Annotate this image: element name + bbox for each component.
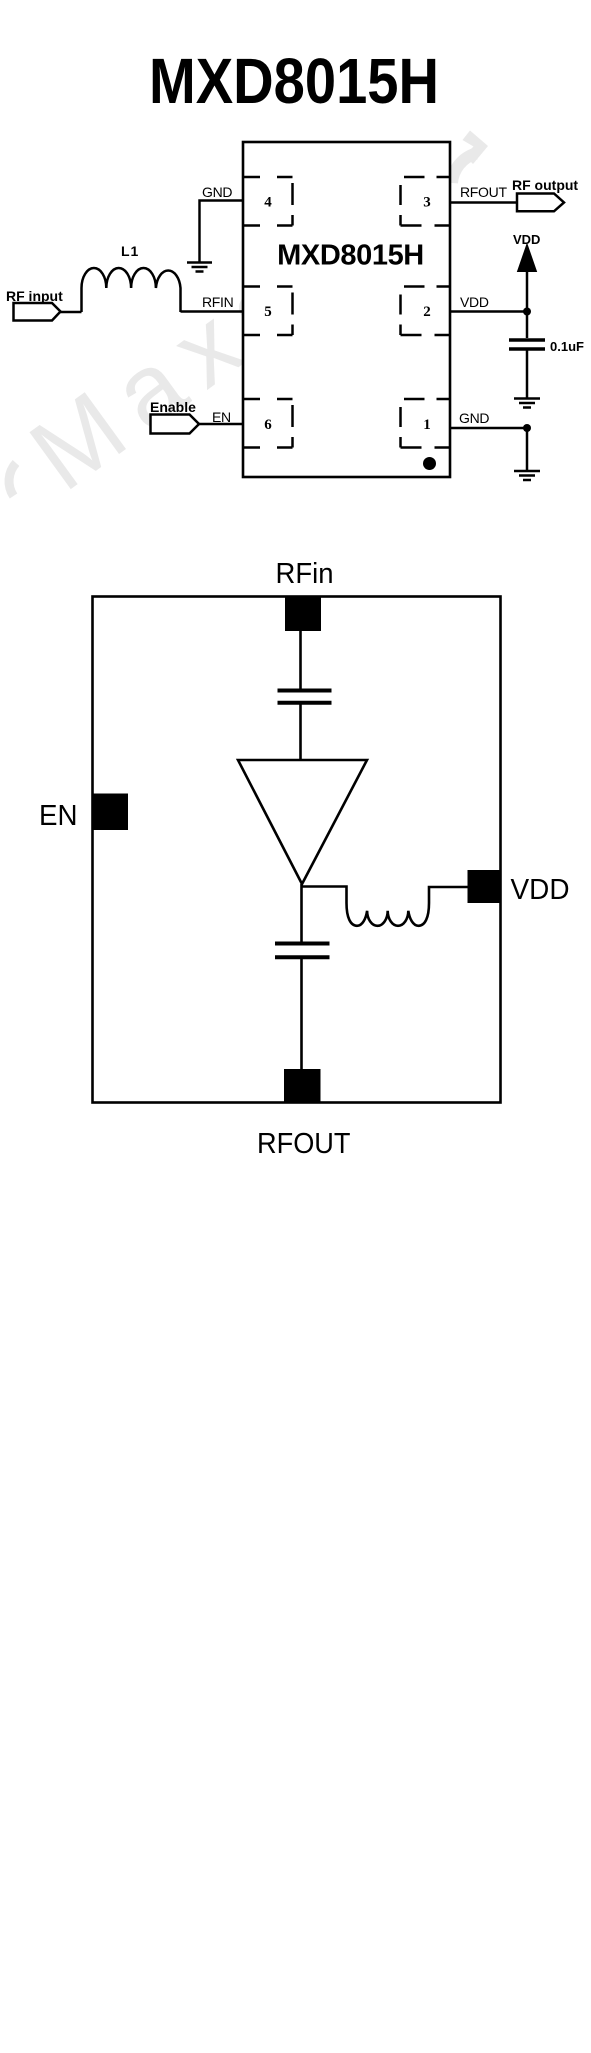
wire pin1 GND bbox=[450, 427, 527, 429]
svg-text:EN: EN bbox=[39, 800, 78, 832]
block diagram outer border bbox=[93, 597, 501, 1103]
svg-text:RFOUT: RFOUT bbox=[257, 1128, 351, 1160]
pin 4 box bbox=[244, 177, 293, 226]
wire Enable to pin6 bbox=[199, 423, 243, 425]
svg-text:VDD: VDD bbox=[511, 874, 570, 906]
wire C1 to ground B bbox=[526, 350, 529, 398]
wire GND to ground C bbox=[526, 428, 529, 471]
svg-text:1: 1 bbox=[423, 417, 431, 433]
ground C bbox=[514, 471, 540, 480]
amplifier triangle bbox=[238, 760, 367, 884]
IC U1 body bbox=[243, 142, 450, 477]
wire VDD to C1 bbox=[526, 312, 529, 339]
wire RFin pad to C2 bbox=[299, 631, 302, 689]
port flag RF input bbox=[14, 303, 61, 321]
svg-text:RFin: RFin bbox=[276, 558, 334, 590]
wire C2 to amplifier bbox=[299, 704, 302, 761]
watermark Maxscend bbox=[10, 236, 329, 511]
port flag RF output bbox=[517, 194, 564, 212]
svg-text:0.1uF: 0.1uF bbox=[550, 339, 584, 354]
pin 1 box bbox=[401, 399, 450, 448]
svg-text:Enable: Enable bbox=[150, 399, 196, 415]
ground A bbox=[187, 263, 212, 272]
svg-text:RF output: RF output bbox=[512, 177, 578, 193]
inductor L2 wire from amplifier output bbox=[302, 887, 347, 904]
svg-text:6: 6 bbox=[264, 417, 272, 433]
inductor L2 bbox=[347, 903, 430, 926]
pad RFin bbox=[285, 596, 321, 631]
svg-text:VDD: VDD bbox=[513, 232, 540, 247]
pin 1 indicator dot bbox=[423, 457, 436, 470]
svg-text:GND: GND bbox=[202, 184, 232, 200]
wire C3 to RFOUT pad bbox=[300, 958, 303, 1070]
svg-text:4: 4 bbox=[264, 195, 272, 211]
svg-text:GND: GND bbox=[459, 410, 489, 426]
VDD arrow symbol bbox=[518, 244, 537, 272]
svg-text:RF input: RF input bbox=[6, 288, 63, 304]
svg-text:5: 5 bbox=[264, 304, 272, 320]
pin 2 box bbox=[401, 287, 450, 336]
wire pin3 RFOUT bbox=[450, 201, 517, 203]
capacitor C3 bbox=[275, 944, 330, 958]
pad RFOUT bbox=[284, 1069, 321, 1103]
svg-text:VDD: VDD bbox=[460, 294, 489, 310]
watermark crescent left edge bbox=[9, 463, 16, 496]
svg-text:MXD8015H: MXD8015H bbox=[277, 240, 424, 272]
ground B bbox=[514, 399, 540, 408]
wire pin2 VDD bbox=[450, 310, 527, 312]
watermark swoosh arrowhead bbox=[463, 131, 489, 165]
capacitor C2 bbox=[278, 691, 332, 703]
wire amplifier to C3 bbox=[300, 884, 303, 942]
wire VDD arrow stem bbox=[526, 271, 529, 312]
capacitor C1 0.1uF bbox=[509, 340, 545, 349]
svg-text:2: 2 bbox=[423, 304, 431, 320]
junction dot GND bbox=[523, 424, 531, 432]
pin 3 box bbox=[401, 177, 450, 226]
svg-text:RFOUT: RFOUT bbox=[460, 184, 507, 200]
inductor L1 bbox=[82, 268, 181, 312]
svg-text:3: 3 bbox=[423, 195, 431, 211]
pad EN bbox=[93, 794, 128, 831]
svg-text:L1: L1 bbox=[121, 243, 139, 259]
wire RF input to L1 bbox=[59, 311, 82, 313]
pin 5 box bbox=[244, 287, 293, 336]
watermark swoosh arc bbox=[452, 154, 476, 184]
svg-text:RFIN: RFIN bbox=[202, 294, 233, 310]
junction dot VDD bbox=[523, 308, 531, 316]
svg-text:EN: EN bbox=[212, 409, 231, 425]
wire L2 to VDD pad bbox=[429, 887, 468, 903]
pad VDD bbox=[468, 870, 502, 903]
port flag Enable bbox=[151, 415, 200, 434]
pin 6 box bbox=[244, 399, 293, 448]
svg-text:MXD8015H: MXD8015H bbox=[149, 45, 439, 117]
wire L1 to pin5 RFIN bbox=[181, 310, 244, 312]
wire pin4 GND bbox=[200, 201, 244, 263]
